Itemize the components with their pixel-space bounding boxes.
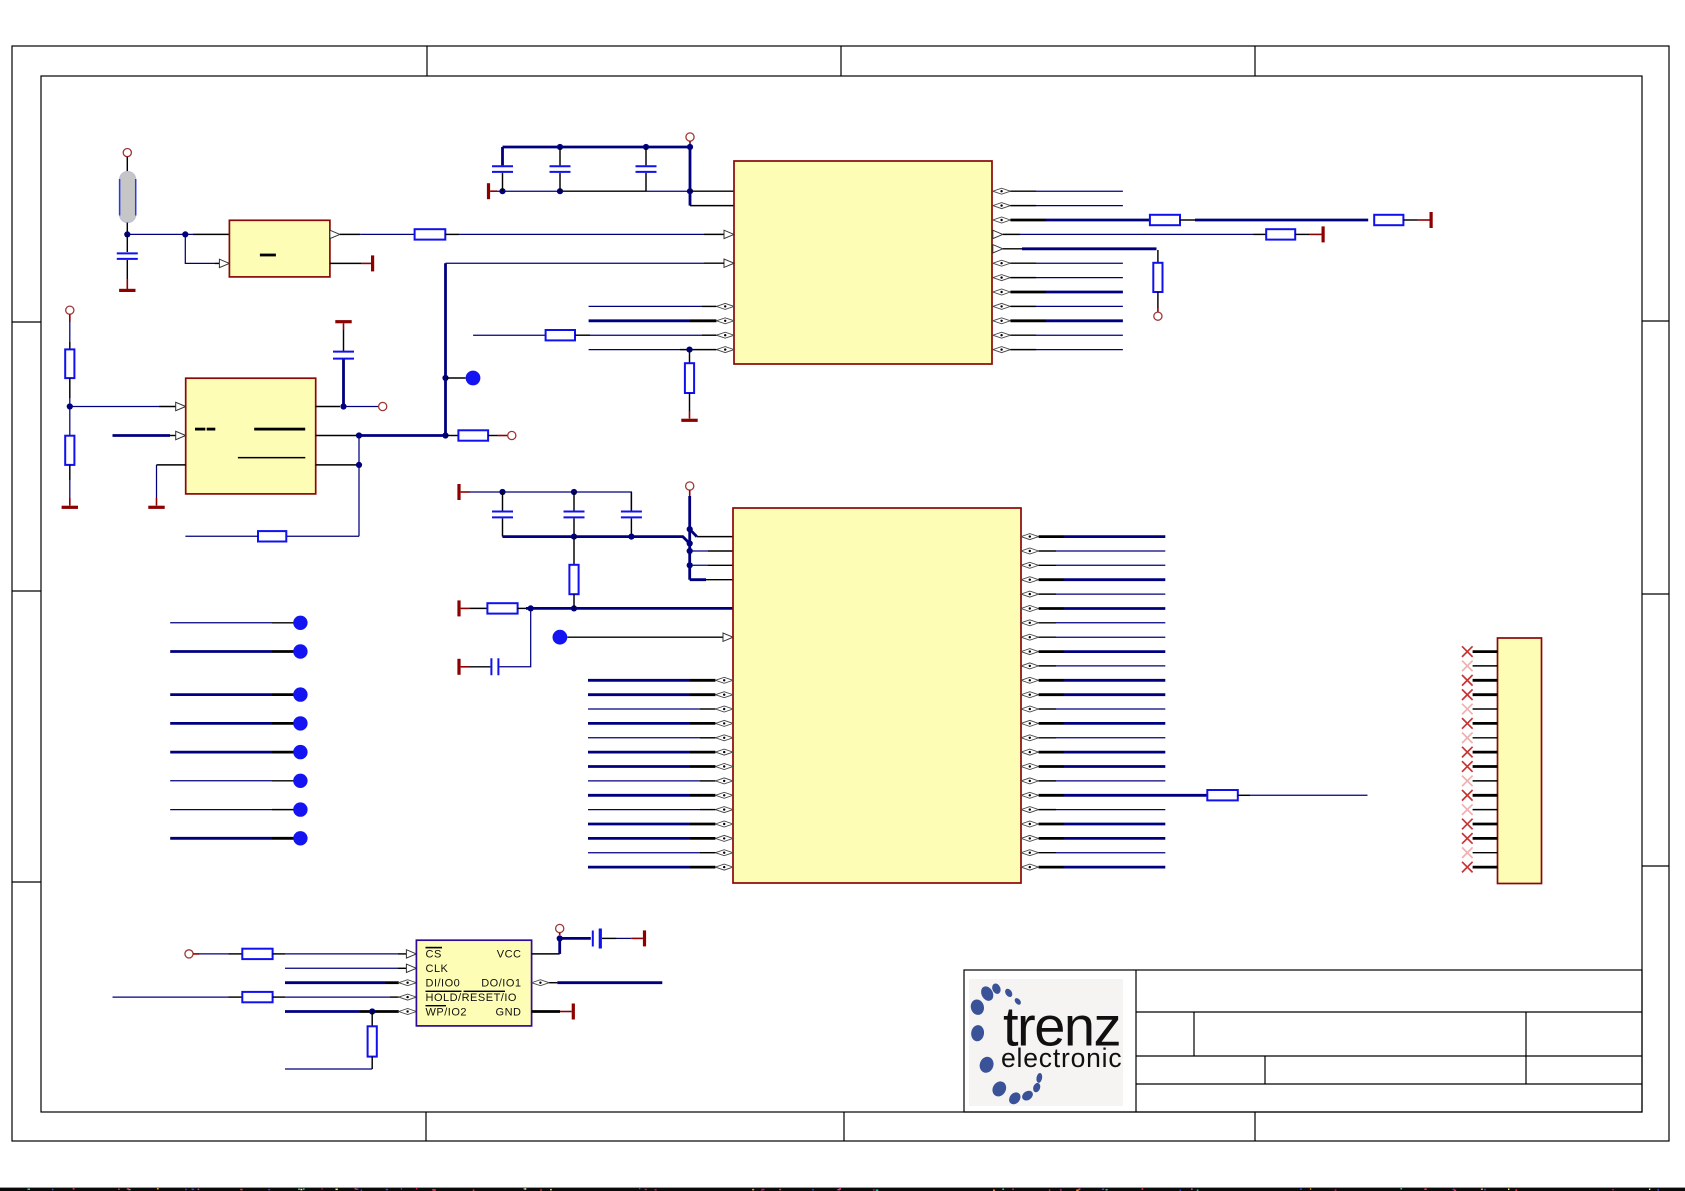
U3 label bar 4: [238, 457, 305, 459]
wire R6 to power tap: [1295, 233, 1309, 235]
wire U4 right row13: [1039, 722, 1064, 725]
wire C7 top lead: [573, 492, 575, 511]
wire U4 right row23: [1039, 866, 1064, 869]
wire feedback bottom left: [185, 535, 258, 537]
wire gnd stub to bypass rail: [461, 491, 470, 493]
wire into U1 pin1: [193, 233, 229, 235]
wire U2 right row7: [1010, 291, 1046, 294]
no-connect X J1 pin15: [1462, 847, 1473, 858]
wire U4 left row10: [588, 679, 690, 682]
svg-text:CS: CS: [426, 949, 442, 961]
pin arrow U2 reset output: [724, 259, 734, 267]
wire reset net horizontal: [446, 262, 705, 264]
resistor R1: [415, 229, 446, 239]
wire U2 power pin1: [690, 205, 734, 207]
junction top rail at C3: [557, 144, 563, 150]
wire U3 out1: [316, 406, 340, 408]
pin diamond U2 right row5: [993, 260, 1011, 266]
pin diamond U4 left row13: [715, 720, 733, 726]
wire U5 GND: [532, 1010, 560, 1013]
wire U2 right row9: [1010, 319, 1046, 322]
wire R14 tail: [1238, 794, 1250, 796]
wire C9 to VCC filter: [499, 608, 530, 666]
wire J1 pin13: [1473, 823, 1498, 826]
no-connect X J1 pin3: [1462, 675, 1473, 686]
wire U4 power pin row0: [690, 529, 697, 536]
wire U1 output to R1: [360, 233, 414, 235]
bottom scan noise strip: [0, 1188, 1685, 1191]
wire U4 right row17: [1039, 780, 1056, 782]
wire gnd stub to C9: [461, 666, 470, 668]
wire U4 right row20: [1039, 823, 1064, 826]
wire bypass bottom rail middle: [560, 190, 646, 192]
wire J1 pin7: [1473, 737, 1498, 739]
wire U5 VCC up: [532, 953, 560, 955]
pin arrow U2 right row4: [993, 245, 1003, 253]
wire U4 right row8: [1039, 650, 1064, 653]
wire U4 left row21: [588, 837, 690, 840]
wire WP/IO2 to U5: [285, 1010, 360, 1013]
wire U4 left row18: [588, 794, 690, 797]
junction out1: [340, 403, 346, 409]
IC U5 flash: [416, 940, 531, 1026]
wire VCC down to U2 power pins: [689, 147, 692, 206]
wire VCC vertical rail U4: [688, 496, 691, 580]
U3 label bar 1: [195, 428, 205, 431]
wire bypass bottom rail right: [646, 190, 690, 192]
frame zone tick bottom 2: [843, 1112, 845, 1141]
pin diamond U4 left row15: [715, 749, 733, 755]
wire R15 to U5 CS: [273, 953, 285, 955]
wire TP2 to U4: [567, 636, 724, 638]
wire out2 to reset net: [359, 434, 446, 437]
wire U4 left row11: [588, 693, 690, 696]
wire U4 left row13: [588, 722, 690, 725]
pin arrow U1 EN input: [219, 259, 229, 267]
wire C2 top lead: [501, 147, 504, 165]
capacitor C8: [621, 512, 642, 518]
pin diamond U2 right row10: [993, 332, 1011, 338]
wire to R2: [473, 334, 545, 336]
wire U4 right row11: [1039, 693, 1064, 696]
no-connect X J1 pin4: [1462, 689, 1473, 700]
ground (R9): [62, 506, 78, 509]
pin diamond U4 right row11: [1021, 692, 1039, 698]
test point TP7: [293, 745, 307, 759]
pin diamond U4 right row3: [1021, 577, 1039, 583]
wire row11 to R3: [689, 350, 691, 364]
junction bottom rail C7: [571, 534, 577, 540]
wire HOLD to R16: [113, 996, 229, 998]
pin arrow U5 CLK: [406, 964, 416, 972]
wire VCC stub: [689, 141, 691, 147]
test point TP10: [293, 831, 307, 845]
junction out3: [356, 462, 362, 468]
pin diamond U4 right row15: [1021, 749, 1039, 755]
wire U4 right row21: [1039, 837, 1064, 840]
wire U3 pin feedback vertical: [358, 436, 360, 537]
pin diamond U5 WP: [399, 1009, 417, 1015]
wire crystal to cap C1: [126, 234, 128, 252]
resistor R12: [487, 603, 517, 613]
test point TP8: [293, 774, 307, 788]
resistor R16: [242, 992, 272, 1002]
test point TP1: [466, 371, 481, 386]
wire J1 pin16: [1473, 866, 1498, 869]
pin diamond U4 right row12: [1021, 706, 1039, 712]
resistor R3: [685, 363, 694, 393]
wire C1 gnd stub: [126, 279, 128, 289]
pin diamond U4 left row12: [715, 706, 733, 712]
logo background: [969, 979, 1123, 1106]
wire test point TP10: [170, 837, 272, 840]
no-connect X J1 pin14: [1462, 833, 1473, 844]
wire J1 pin12: [1473, 809, 1498, 811]
pin diamond U4 right row22: [1021, 850, 1039, 856]
crystal Y1: [120, 172, 136, 223]
pin diamond U4 left row22: [715, 850, 733, 856]
ground (C5 top): [335, 320, 351, 323]
resistor R10: [458, 430, 488, 440]
wire test point TP6: [170, 722, 272, 725]
wire U4 right row16: [1039, 765, 1064, 768]
wire U2 left row11: [589, 349, 680, 351]
title block cell divider a: [1193, 1012, 1195, 1056]
wire U2 right row6: [1010, 277, 1036, 279]
wire U2 right row0: [1010, 190, 1036, 192]
test point TP5: [293, 687, 307, 701]
pin diamond U5 DO: [532, 980, 550, 986]
junction VCC filter b: [571, 605, 577, 611]
wire U4 right row15: [1039, 751, 1064, 754]
title block row line 1: [1136, 1011, 1642, 1013]
wire VCC to C10: [560, 937, 591, 940]
wire J1 pin4: [1473, 693, 1498, 696]
title block logo cell divider: [1135, 970, 1137, 1112]
no-connect X J1 pin12: [1462, 804, 1473, 815]
wire U2 left row9: [589, 319, 690, 322]
wire C3 bottom lead: [559, 173, 561, 191]
wire U2 right row1: [1010, 205, 1036, 207]
wire U4 left row23: [588, 866, 690, 869]
title block cell divider b: [1264, 1056, 1266, 1084]
ground tap (VCC filter R12): [457, 600, 460, 616]
pin diamond U4 right row10: [1021, 677, 1039, 683]
wire branch down to U1 pin2: [185, 234, 215, 263]
wire C3 top lead: [559, 147, 561, 165]
wire J1 pin15: [1473, 852, 1498, 854]
resistor R15: [242, 949, 272, 959]
pin diamond U2 right row11: [993, 347, 1011, 353]
wire test point TP8: [170, 780, 272, 782]
junction top rail C6: [499, 489, 505, 495]
wire test point TP7: [170, 751, 272, 754]
wire C7 rail to R13: [573, 537, 575, 565]
capacitor C3: [550, 166, 571, 172]
pin diamond U4 right row4: [1021, 591, 1039, 597]
wire crystal bottom lead: [126, 223, 128, 235]
svg-text:electronic: electronic: [1001, 1043, 1122, 1073]
pin diamond U4 left row18: [715, 792, 733, 798]
junction flash VCC: [557, 935, 563, 941]
wire R1 out: [445, 233, 459, 235]
wire gnd stub to C2: [490, 190, 497, 192]
svg-text:WP/IO2: WP/IO2: [426, 1007, 468, 1019]
pin diamond U4 left row21: [715, 835, 733, 841]
test point TP2: [553, 630, 568, 645]
node off-page connector (U3 out1): [379, 402, 387, 410]
wire U4 left row17: [588, 780, 700, 782]
wire U4 right row12: [1039, 708, 1056, 710]
title block row line 3: [1136, 1083, 1642, 1085]
resistor R8: [65, 349, 74, 378]
pin diamond U4 right row18: [1021, 792, 1039, 798]
wire U4 right row18 to R14: [1039, 794, 1064, 797]
wire U4 right row3: [1039, 578, 1064, 581]
wire J1 pin5: [1473, 708, 1498, 710]
pin diamond U4 right row17: [1021, 778, 1039, 784]
wire R10 to off-page: [488, 435, 497, 437]
junction crystal node: [124, 231, 130, 237]
pin diamond U4 right row6: [1021, 620, 1039, 626]
resistor R5: [1374, 215, 1403, 225]
frame zone tick right 2: [1642, 593, 1669, 595]
wire J1 pin6: [1473, 722, 1498, 725]
resistor R4: [1150, 215, 1180, 225]
junction bottom rail at C3: [557, 188, 563, 194]
wire crystal to oscillator U1: [127, 233, 193, 235]
wire U4 right row6: [1039, 622, 1056, 624]
pin arrow U4 input row7: [723, 633, 733, 641]
ground (U3 pin3): [148, 506, 164, 509]
svg-text:DI/IO0: DI/IO0: [426, 977, 461, 989]
no-connect X J1 pin10: [1462, 776, 1473, 787]
capacitor C4: [636, 166, 657, 172]
power tap (U1 pin4): [371, 255, 374, 271]
pin diamond U4 left row16: [715, 764, 733, 770]
no-connect X J1 pin8: [1462, 747, 1473, 758]
ground (C1): [119, 289, 135, 292]
wire C1 bottom lead: [126, 260, 128, 279]
wire U2 right row8: [1010, 305, 1036, 307]
node 3V3 off-page connector (crystal top): [123, 149, 131, 157]
frame zone tick right 3: [1642, 865, 1669, 867]
wire divider tap to U3: [70, 406, 159, 408]
ground tap (C9): [457, 659, 460, 675]
wire test point TP3: [170, 622, 272, 624]
capacitor C1: [117, 253, 138, 259]
U1 label bar: [260, 254, 276, 257]
frame zone tick bottom 1: [425, 1112, 427, 1141]
wire U2 right row2 to R4: [1010, 219, 1046, 222]
wire U4 power pin row1: [690, 550, 708, 552]
svg-text:CLK: CLK: [426, 963, 449, 975]
wire U3 pin3 to ground: [157, 464, 186, 466]
junction U2 power pin0: [687, 188, 693, 194]
wire U4 right row9: [1039, 665, 1056, 667]
wire out1 to off-page: [344, 406, 379, 408]
junction reset net joins: [442, 432, 448, 438]
resistor R9: [65, 436, 74, 465]
node VCC off-page connector (U2 supply): [686, 133, 694, 141]
power tap (row3 net): [1322, 226, 1325, 242]
wire bypass bottom rail (U4): [503, 537, 690, 544]
node off-page connector (flash VCC): [556, 924, 564, 932]
wire U4 right row22: [1039, 852, 1056, 854]
no-connect X J1 pin5: [1462, 704, 1473, 715]
pin diamond U2 right row9: [993, 318, 1011, 324]
wire U2 power pin0: [690, 190, 734, 192]
wire WP to R17: [371, 1012, 373, 1027]
junction out2 a: [356, 432, 362, 438]
wire VCC stub U4: [689, 490, 691, 496]
node off-page connector (divider top): [66, 306, 74, 314]
wire U4 power pin row2: [690, 564, 708, 566]
wire R3 to ground: [689, 393, 691, 411]
junction VCC filter a: [528, 605, 534, 611]
pin diamond U4 right row20: [1021, 821, 1039, 827]
wire C8 bottom lead: [630, 518, 632, 536]
pin diamond U2 left row10: [716, 332, 734, 338]
pin diamond U5 DI/IO0: [399, 980, 417, 986]
junction VCC rail corner: [687, 144, 693, 150]
pin diamond U2 right row6: [993, 275, 1011, 281]
test point TP3: [293, 616, 307, 630]
pin diamond U2 left row11: [716, 347, 734, 353]
resistor R14: [1207, 790, 1238, 800]
pin diamond U4 right row23: [1021, 864, 1039, 870]
wire J1 pin10: [1473, 780, 1498, 782]
pin diamond U4 right row7: [1021, 634, 1039, 640]
wire bypass top rail: [503, 146, 691, 149]
title block border: [964, 970, 1642, 1112]
ground (R3): [681, 419, 697, 422]
wire R5 to power tap: [1403, 219, 1417, 221]
pin diamond U2 right row8: [993, 303, 1011, 309]
wire U4 left row22: [588, 852, 700, 854]
junction top rail C7: [571, 489, 577, 495]
wire U2 right row5: [1010, 262, 1036, 264]
frame zone tick bottom 3: [1254, 1112, 1256, 1141]
pin diamond U4 right row21: [1021, 835, 1039, 841]
wire U4 left row15: [588, 751, 690, 754]
no-connect X J1 pin11: [1462, 790, 1473, 801]
oscillator U1: [229, 220, 330, 277]
wire to test point TP1: [446, 377, 466, 379]
wire R16 to U5 HOLD: [273, 996, 285, 998]
pin diamond U4 left row14: [715, 735, 733, 741]
wire C2 bottom lead: [502, 173, 504, 191]
ground tap (bypass C2-C4 rail): [487, 183, 490, 199]
no-connect X J1 pin6: [1462, 718, 1473, 729]
wire U2 left row8: [589, 305, 702, 307]
resistor R7: [1153, 263, 1162, 292]
wire R9 to ground: [69, 465, 71, 480]
title block cell divider c: [1525, 1012, 1527, 1084]
no-connect X J1 pin9: [1462, 761, 1473, 772]
frame zone tick left 3: [12, 881, 41, 883]
IC U2: [734, 161, 992, 364]
wire J1 pin8: [1473, 751, 1498, 754]
pin diamond U4 right row5: [1021, 606, 1039, 612]
wire U3 input2: [113, 434, 171, 437]
wire J1 pin9: [1473, 765, 1498, 768]
pin diamond U2 left row8: [716, 303, 734, 309]
wire test point TP4: [170, 650, 272, 653]
wire U1 pin4 power stub: [361, 262, 371, 264]
wire U4 power pin row3: [690, 578, 706, 581]
wire CS to R15: [193, 953, 199, 955]
wire bypass bottom rail: [497, 190, 560, 192]
wire U4 left row19: [588, 809, 700, 811]
no-connect X J1 pin1: [1462, 646, 1473, 657]
IC U3 comparator: [186, 378, 316, 494]
pin diamond U4 right row16: [1021, 764, 1039, 770]
wire U2 right row11: [1010, 349, 1036, 351]
wire U4 right row14: [1039, 737, 1056, 739]
test point TP6: [293, 716, 307, 730]
wire C4 bottom lead: [645, 173, 647, 191]
capacitor C9: [491, 658, 498, 675]
svg-text:HOLD/RESET/IO: HOLD/RESET/IO: [426, 992, 517, 1004]
wire C6 bottom lead: [502, 518, 504, 536]
ground tap (C10): [643, 930, 646, 946]
connector J1: [1498, 638, 1542, 884]
wire CLK to U5: [285, 967, 398, 969]
junction VCC rail U4: [687, 548, 693, 554]
wire U4 right row5: [1039, 607, 1064, 610]
junction WP pulldown: [369, 1008, 375, 1014]
pin diamond U2 right row0: [993, 188, 1011, 194]
wire DI/IO0 to U5: [285, 981, 385, 984]
U5 CS overline: [426, 947, 443, 949]
pin diamond U4 left row19: [715, 807, 733, 813]
wire U4 right row2: [1039, 564, 1056, 566]
wire J1 pin2: [1473, 665, 1498, 667]
U3 label bar 3: [254, 428, 305, 431]
pin diamond U4 left row20: [715, 821, 733, 827]
capacitor C7: [564, 512, 585, 518]
wire U2 right row3 to R6: [1003, 233, 1020, 235]
wire gnd stub to R12: [461, 607, 470, 609]
junction bottom rail C8: [628, 534, 634, 540]
junction bottom rail at C2: [499, 188, 505, 194]
ground tap (U5 GND): [572, 1004, 575, 1020]
wire C6 top lead: [502, 492, 504, 511]
U5 HOLD overline: [426, 991, 462, 992]
wire out1 to C5: [342, 360, 345, 407]
wire test point TP9: [170, 809, 272, 811]
resistor R11: [258, 531, 286, 541]
junction top rail at C4: [643, 144, 649, 150]
wire VCC stub flash: [559, 933, 561, 935]
wire R17 tail: [371, 1057, 373, 1069]
wire U2 reset pin: [704, 262, 724, 264]
frame zone tick left 1: [12, 321, 41, 323]
pin diamond U2 right row2: [993, 217, 1011, 223]
U5 WP overline: [426, 1005, 447, 1006]
pin diamond U4 right row8: [1021, 649, 1039, 655]
wire U4 right row1: [1039, 550, 1056, 552]
wire J1 pin1: [1473, 650, 1498, 653]
capacitor C6: [492, 512, 513, 518]
pin arrow U3 input2: [176, 431, 186, 439]
wire U2 right row10: [1010, 334, 1036, 336]
wire U4 left row20: [588, 823, 690, 826]
wire divider top stub: [69, 314, 71, 322]
pin diamond U4 left row10: [715, 677, 733, 683]
U3 label bar 2: [207, 428, 216, 431]
